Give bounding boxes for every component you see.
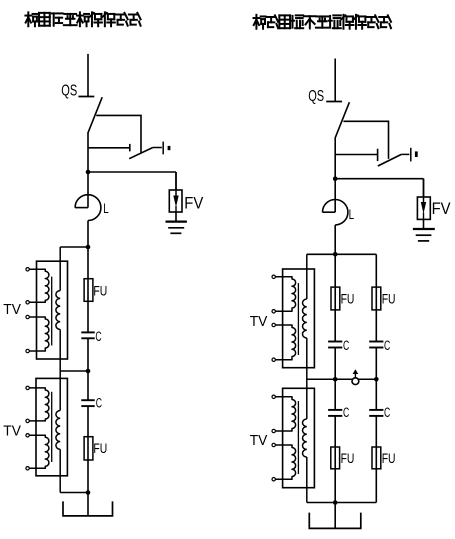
fuse FU column-1 lower (right) [331, 447, 340, 469]
label TV lower (left) [3, 422, 21, 438]
wire: branch to earthing switch (left) [96, 115, 141, 153]
wire: bottom tie secondary to main (left) [60, 492, 88, 494]
wire: bridge middle rail (right) [307, 378, 378, 380]
capacitor C upper (left) [81, 332, 94, 338]
svg-text:C: C [96, 395, 102, 411]
transformer TV upper box (left) [37, 261, 68, 359]
transformer TV upper secondary winding (left) [56, 291, 60, 330]
capacitor C column-2 lower (right) [369, 410, 383, 416]
cable end bracket (left) [63, 501, 113, 516]
transformer TV upper core (right) [297, 283, 299, 355]
transformer TV lower primary winding 2 (left) [29, 435, 49, 468]
cable end bracket (right) [309, 513, 361, 529]
terminals of TV upper (left) [26, 268, 29, 353]
node: bridge top junction dot (right) [333, 252, 338, 257]
svg-text:FU: FU [93, 440, 107, 456]
label TV lower (right) [250, 432, 268, 448]
svg-text:C: C [95, 329, 101, 345]
earth symbol of earthing switch (left) [163, 142, 169, 155]
svg-text:C: C [384, 338, 390, 354]
wire: incomer top (left) [87, 54, 89, 97]
surge arrester FV box (left) [169, 172, 182, 212]
wire: arrester to ground (right) [423, 219, 425, 229]
wire: QS to node (right) [334, 138, 336, 179]
svg-text:C: C [343, 338, 349, 354]
svg-text:L: L [349, 207, 355, 223]
transformer TV lower secondary winding (right) [303, 419, 307, 457]
wire: reactor to bridge top node (right) [334, 225, 336, 254]
svg-text:TV: TV [250, 432, 268, 448]
label FU column-1 upper (right) [341, 291, 355, 307]
wire: node to arrester (left) [88, 172, 176, 190]
label FU upper (left) [93, 283, 107, 299]
earthing switch blade (right) [378, 154, 402, 166]
transformer TV upper primary winding 2 (right) [275, 325, 295, 360]
node: bottom rail dot (right) [333, 500, 338, 505]
ground under FV (right) [413, 229, 435, 241]
wire: secondary line (right) [306, 254, 308, 502]
wire: arrester to ground (left) [175, 212, 177, 221]
title: 相电压差动保护方式 [25, 12, 140, 26]
node: middle junction dot (left) [86, 369, 91, 374]
svg-text:FU: FU [93, 283, 107, 299]
earthing switch blade (left) [129, 148, 153, 159]
fuse FU lower (left) [84, 437, 93, 460]
transformer TV upper primary winding 1 (right) [275, 277, 295, 312]
unbalance signal indicator (right) [352, 369, 359, 384]
node: middle rail dots (right) [333, 377, 379, 382]
label FU column-2 lower (right) [382, 451, 396, 467]
wire: bridge top rail (right) [307, 253, 377, 255]
wire: blade to earth (left) [153, 147, 162, 149]
label C upper (left) [95, 329, 101, 345]
transformer TV lower primary winding 1 (right) [275, 397, 295, 431]
svg-text:FU: FU [341, 291, 355, 307]
transformer TV lower secondary winding (left) [56, 411, 60, 450]
label FU lower (left) [93, 440, 107, 456]
earth symbol of earthing switch (right) [411, 148, 417, 162]
svg-text:TV: TV [3, 422, 21, 438]
transformer TV lower box (left) [36, 378, 67, 475]
svg-text:TV: TV [3, 301, 21, 317]
disconnector QS fixed contact bar (left) [78, 96, 94, 98]
svg-text:FU: FU [341, 451, 355, 467]
capacitor C column-1 upper (right) [328, 342, 342, 348]
label L (left) [103, 200, 109, 216]
svg-text:C: C [384, 405, 390, 421]
transformer TV lower core (left) [51, 392, 53, 462]
node: junction dot at arrester tap (left) [86, 170, 91, 175]
earthing switch fixed contact (left) [88, 144, 130, 152]
label C lower (left) [96, 395, 102, 411]
transformer TV lower primary winding 2 (right) [275, 445, 295, 479]
svg-text:FV: FV [432, 200, 451, 218]
terminals of TV lower (left) [26, 386, 29, 470]
svg-text:C: C [343, 405, 349, 421]
transformer TV lower box (right) [283, 388, 315, 487]
label TV upper (right) [250, 313, 268, 329]
reactor L (right) [323, 179, 348, 225]
label FV (left) [184, 195, 203, 213]
wire: secondary line (left) [59, 247, 61, 493]
label QS (right) [308, 87, 324, 104]
disconnector QS blade (right) [335, 102, 349, 138]
wire: column-2 line (right) [375, 254, 377, 502]
capacitor C column-2 upper (right) [369, 342, 383, 348]
label QS (left) [61, 81, 77, 98]
fuse FU column-2 lower (right) [372, 447, 381, 469]
transformer TV upper primary winding 1 (left) [29, 269, 49, 302]
svg-text:FU: FU [382, 291, 396, 307]
transformer TV upper core (left) [51, 277, 53, 346]
surge arrester FV box (right) [417, 179, 430, 220]
node: junction dot at arrester tap (right) [333, 176, 338, 181]
label C column-2 upper (right) [384, 338, 390, 354]
label FV (right) [432, 200, 451, 218]
wire: main line through fuse/cap column (left) [87, 247, 89, 516]
terminals of TV lower (right) [272, 395, 275, 481]
wire: reactor to TV node (left) [87, 221, 89, 248]
transformer TV upper primary winding 2 (left) [29, 317, 49, 351]
node: top junction dot (left) [86, 245, 91, 250]
svg-text:FV: FV [184, 195, 203, 213]
svg-text:TV: TV [250, 313, 268, 329]
transformer TV lower primary winding 1 (left) [29, 388, 49, 421]
disconnector QS blade (left) [88, 97, 102, 133]
svg-text:QS: QS [308, 87, 324, 104]
disconnector QS fixed contact bar (right) [326, 101, 342, 103]
wire: node to secondary line (left) [60, 246, 88, 248]
svg-text:FU: FU [382, 451, 396, 467]
wire: column-1 main line (right) [334, 254, 336, 528]
fuse FU upper (left) [84, 279, 93, 302]
label TV upper (left) [3, 301, 21, 317]
label C column-2 lower (right) [384, 405, 390, 421]
label FU column-2 upper (right) [382, 291, 396, 307]
transformer TV upper secondary winding (right) [302, 299, 306, 338]
ground under FV (left) [166, 222, 187, 234]
terminals of TV upper (right) [272, 275, 275, 361]
label C column-1 upper (right) [343, 338, 349, 354]
label C column-1 lower (right) [343, 405, 349, 421]
title: 桥式电流不平衡保护方式 [254, 15, 391, 29]
wire: QS to node (left) [87, 133, 89, 172]
wire: branch to earthing switch (right) [343, 121, 388, 159]
svg-text:L: L [103, 200, 109, 216]
label FU column-1 lower (right) [341, 451, 355, 467]
wire: blade to earth (right) [401, 153, 409, 155]
wire: node to arrester (right) [335, 179, 423, 197]
earthing switch fixed contact (right) [335, 149, 377, 161]
fuse FU column-2 upper (right) [372, 287, 381, 310]
node: bottom junction dot (left) [86, 490, 91, 495]
wire: bridge bottom rail (right) [307, 502, 377, 504]
label L (right) [349, 207, 355, 223]
transformer TV lower core (right) [297, 401, 299, 474]
capacitor C lower (left) [81, 400, 94, 406]
svg-text:QS: QS [61, 81, 77, 98]
transformer TV upper box (right) [283, 269, 315, 368]
reactor L (left) [75, 172, 101, 221]
fuse FU column-1 upper (right) [331, 287, 340, 310]
wire: incomer top (right) [334, 59, 336, 102]
capacitor C column-1 lower (right) [328, 410, 342, 416]
wire: middle tie secondary to main (left) [60, 370, 88, 372]
